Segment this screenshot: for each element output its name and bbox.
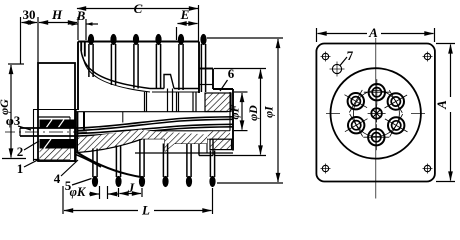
clamp hatch lower	[40, 149, 71, 160]
svg-text:φF: φF	[228, 104, 242, 119]
dim H	[39, 7, 78, 40]
bottom shell outline	[38, 110, 233, 178]
center pin	[368, 104, 386, 122]
divider above tube	[122, 112, 124, 123]
lower right pin	[385, 114, 408, 137]
pitch circle	[353, 91, 399, 137]
top spring coil 4	[155, 34, 161, 89]
wire tube	[78, 117, 233, 136]
bottom spring coil 3	[139, 139, 145, 187]
svg-text:L: L	[141, 203, 150, 218]
top spring coil 2	[110, 34, 116, 85]
bottom spring coil 6	[209, 151, 215, 188]
svg-text:1: 1	[17, 161, 24, 176]
bottom springs	[92, 139, 216, 187]
lower left pin	[345, 114, 368, 137]
dim B	[70, 8, 98, 40]
label 4	[54, 160, 78, 186]
svg-text:φI: φI	[262, 105, 276, 118]
seal bushing lower (black)	[40, 139, 75, 149]
hatch band below bore to profile	[138, 130, 207, 152]
dim J	[119, 180, 143, 197]
svg-text:J: J	[127, 180, 135, 195]
top spring coil 1	[88, 34, 94, 77]
svg-text:30: 30	[23, 7, 36, 22]
top pin	[364, 79, 390, 105]
label phi3	[6, 113, 31, 130]
label 5	[65, 178, 92, 193]
cone wedge hatch below tube	[78, 130, 142, 153]
svg-text:C: C	[134, 1, 143, 16]
dim phiK	[70, 185, 118, 199]
gland nut body	[33, 63, 77, 161]
hole 7	[330, 48, 354, 77]
bottom spring coil 2	[115, 146, 121, 188]
bottom spring coil 5	[186, 144, 192, 188]
big circle	[331, 68, 421, 158]
seal bushing upper (black)	[40, 120, 75, 129]
svg-text:2: 2	[17, 144, 24, 159]
svg-text:4: 4	[54, 171, 61, 186]
dim phiD	[214, 69, 266, 156]
upper left pin	[345, 90, 368, 113]
svg-text:E: E	[180, 7, 190, 22]
flange square	[316, 44, 435, 182]
bottom spring coil 1	[92, 149, 98, 188]
dim phiG	[0, 64, 26, 159]
svg-text:H: H	[51, 7, 63, 22]
svg-text:A: A	[434, 100, 449, 110]
insert top hatch	[205, 92, 231, 131]
svg-text:φD: φD	[246, 105, 260, 121]
upper right pin	[385, 90, 408, 113]
pins	[345, 79, 408, 150]
top spring coil 3	[133, 34, 139, 89]
shell top outline	[78, 42, 233, 151]
bottom pin	[363, 124, 389, 150]
insert bottom hatch	[207, 131, 233, 149]
label 2	[17, 141, 39, 159]
contact blocks interior	[75, 89, 230, 131]
mounting holes	[321, 52, 433, 174]
dim C	[77, 1, 199, 41]
dim phiI	[207, 38, 283, 183]
dim L	[63, 186, 213, 218]
top spring coil 5	[178, 34, 184, 90]
svg-text:B: B	[76, 8, 86, 23]
bottom spring coil 4	[162, 144, 168, 188]
center lines	[326, 38, 425, 199]
flange inner step	[83, 112, 85, 130]
cable	[5, 128, 87, 136]
dim A top	[317, 25, 435, 42]
label 6	[220, 66, 235, 91]
dim 30	[21, 7, 39, 64]
dim phiF	[228, 92, 248, 131]
dim A right	[434, 44, 456, 182]
svg-text:7: 7	[347, 48, 354, 63]
svg-text:A: A	[368, 25, 378, 40]
dim E	[177, 7, 198, 40]
svg-text:φK: φK	[70, 185, 87, 199]
label 1	[17, 160, 38, 176]
top springs	[88, 34, 207, 92]
top spring coil 6	[200, 34, 206, 92]
